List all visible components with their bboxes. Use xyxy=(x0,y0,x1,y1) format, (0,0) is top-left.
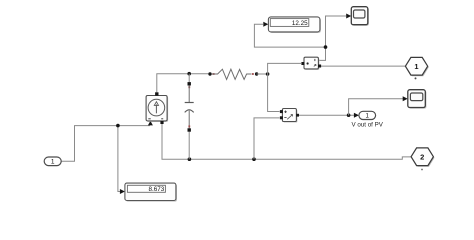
wire capacitor bottom stub xyxy=(188,132,190,160)
connection port hexagon 2 xyxy=(411,148,434,171)
svg-text:1: 1 xyxy=(51,159,55,166)
current measurement block xyxy=(301,57,321,70)
svg-text:1: 1 xyxy=(365,113,369,120)
arrowhead into display 8.673 xyxy=(120,189,125,194)
wire resistor to junction node xyxy=(257,73,268,75)
wire from inport 1 to current source signal input xyxy=(62,126,151,162)
scope 1 xyxy=(351,7,369,26)
current source block (controlled current source) xyxy=(146,92,168,124)
node junction on signal wire xyxy=(116,124,120,128)
current measurement signal wire up to display/scope xyxy=(319,47,326,60)
voltage measurement block xyxy=(280,109,299,123)
svg-text:8.673: 8.673 xyxy=(149,186,165,193)
outport oval 1 (V out of PV) xyxy=(352,111,384,128)
capacitor C xyxy=(185,82,194,132)
node junction rail-voltmeter-minus xyxy=(252,157,256,161)
svg-text:V out of PV: V out of PV xyxy=(352,121,384,128)
svg-text:1: 1 xyxy=(414,62,418,71)
voltmeter output wire to outport xyxy=(298,114,354,116)
display block 12.25 xyxy=(268,17,321,33)
arrowhead into scope 2 xyxy=(403,96,408,101)
node junction rail-capacitor xyxy=(188,157,192,161)
arrowhead into scope 1 xyxy=(346,14,351,19)
inport oval 1 xyxy=(44,157,61,166)
arrowhead up into current source signal port xyxy=(148,121,153,126)
wire to display 12.25 xyxy=(254,24,325,47)
wire rail to voltmeter minus input xyxy=(254,118,280,159)
connection port hexagon 1 xyxy=(405,57,428,79)
svg-text:12.25: 12.25 xyxy=(292,20,308,27)
wire capacitor top stub xyxy=(188,74,190,83)
wire up to scope 2 xyxy=(349,99,404,116)
arrowhead into outport oval xyxy=(354,113,359,118)
wire bottom rail from current source negative terminal to port 2 xyxy=(162,123,411,159)
wire branch to display 8.673 xyxy=(118,126,121,192)
current measurement block output wire to port 1 xyxy=(321,65,406,67)
node junction below resistor xyxy=(266,72,270,76)
node junction voltmeter signal xyxy=(347,113,351,117)
display block 8.673 xyxy=(125,183,177,201)
wire to scope 1 xyxy=(326,16,347,47)
wire top rail from current source plus terminal to resistor xyxy=(157,74,209,93)
scope 2 xyxy=(408,90,427,109)
svg-text:2: 2 xyxy=(420,153,424,162)
wire junction down to voltmeter plus input xyxy=(268,74,280,112)
resistor R xyxy=(208,69,258,79)
node junction top rail-capacitor xyxy=(187,72,191,76)
node junction of measurement signal xyxy=(324,45,328,49)
wire junction up to current measurement input xyxy=(268,63,301,74)
arrowhead into display 12.25 xyxy=(263,22,268,27)
